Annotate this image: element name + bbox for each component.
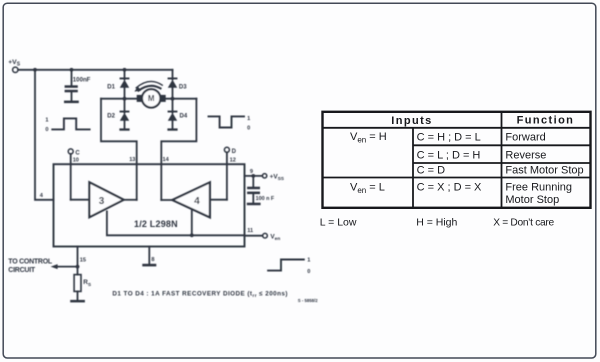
motor M (101, 89, 196, 107)
wire +Vs down to pin 4 (35, 70, 54, 200)
node junction D1-D2 motor-left (123, 97, 127, 101)
terminal D (224, 147, 236, 155)
svg-text:Ven = L: Ven = L (350, 182, 385, 196)
wire input amp4 (210, 199, 227, 201)
svg-text:13: 13 (129, 157, 135, 163)
svg-text:11: 11 (247, 228, 253, 234)
svg-text:8: 8 (151, 257, 154, 263)
svg-text:C: C (75, 151, 80, 157)
terminal Ven (263, 233, 281, 242)
svg-text:Reverse: Reverse (505, 150, 546, 162)
rotation arrows above motor (134, 81, 162, 91)
terminal +Vs (8, 59, 21, 72)
pin 15 wire (77, 247, 79, 275)
svg-text:D3: D3 (179, 84, 187, 90)
ground (under left cap) (64, 101, 79, 104)
node junction pin15 (76, 265, 80, 269)
table column divider CD/Function (501, 112, 503, 208)
svg-text:M: M (148, 94, 155, 103)
svg-text:TO CONTROL: TO CONTROL (8, 258, 53, 265)
node junction D3-D4 motor-right (171, 97, 175, 101)
IC box 1/2 L298N (54, 164, 245, 246)
svg-text:1: 1 (45, 117, 48, 123)
svg-text:100nF: 100nF (73, 77, 91, 84)
ground (under D4) (167, 128, 177, 130)
node junction rail-D1 (123, 68, 127, 72)
wire +Vs rail (18, 69, 172, 71)
pin 11 wire (245, 235, 263, 237)
svg-text:14: 14 (163, 157, 170, 163)
wire pin 12 (226, 152, 228, 199)
svg-text:15: 15 (80, 257, 86, 263)
svg-text:Ven = H: Ven = H (350, 131, 387, 145)
wire pin 10 (70, 154, 72, 200)
table truth-table frame (323, 112, 591, 208)
svg-text:100 n F: 100 n F (256, 196, 275, 202)
wire output amp4 (161, 199, 172, 201)
svg-text:Inputs: Inputs (391, 115, 432, 127)
wire output amp3 (124, 199, 137, 201)
svg-text:D4: D4 (180, 114, 188, 120)
terminal C (68, 149, 80, 157)
ground (under D2) (119, 128, 129, 130)
svg-text:X = Don’t care: X = Don’t care (493, 218, 554, 229)
svg-text:12: 12 (230, 157, 236, 163)
diode D3 (168, 70, 188, 99)
wire left output to pin 13 (101, 99, 137, 200)
svg-text:D: D (232, 149, 237, 155)
diode D2 (107, 99, 129, 129)
svg-text:D2: D2 (107, 114, 115, 120)
svg-text:4: 4 (194, 196, 200, 207)
svg-text:L = Low: L = Low (320, 217, 357, 229)
diode D4 (168, 99, 188, 129)
label TO CONTROL CIRCUIT (8, 258, 53, 274)
table header separator (323, 127, 591, 129)
svg-text:Free Running: Free Running (505, 182, 572, 194)
terminal +Vss (262, 173, 284, 182)
svg-text:0: 0 (307, 269, 310, 275)
svg-text:Motor Stop: Motor Stop (505, 194, 559, 206)
node junction rail-cap (70, 68, 74, 72)
capacitor C 100nF (left) (65, 70, 91, 101)
wire right output to pin 14 (161, 99, 196, 200)
ground (under right cap) (247, 203, 261, 206)
svg-text:Forward: Forward (505, 132, 545, 144)
table row line 3 (323, 177, 591, 179)
svg-text:C = L ; D = H: C = L ; D = H (417, 150, 481, 162)
waveform step Ven (268, 257, 310, 275)
svg-text:H = High: H = High (416, 217, 457, 229)
node junction enable (190, 233, 194, 237)
svg-text:9: 9 (250, 169, 253, 175)
table row line 1 (413, 144, 591, 146)
table column divider Ven/CD (412, 128, 414, 208)
capacitor 100 n F (right) (247, 176, 275, 203)
svg-text:C = H ; D = L: C = H ; D = L (417, 132, 481, 144)
wire input amp3 (71, 199, 90, 201)
waveform pulse D input (inverted) (209, 116, 251, 132)
svg-text:C = D: C = D (417, 165, 445, 177)
waveform pulse C input (45, 117, 89, 133)
table row line 2 (413, 162, 591, 164)
svg-text:S - 5858/2: S - 5858/2 (298, 298, 318, 303)
svg-text:1/2 L298N: 1/2 L298N (134, 219, 178, 229)
svg-text:Fast Motor Stop: Fast Motor Stop (505, 165, 583, 177)
svg-text:CIRCUIT: CIRCUIT (8, 267, 36, 274)
diode D1 (107, 70, 129, 99)
amplifier 3 (89, 182, 123, 217)
svg-text:3: 3 (99, 196, 105, 207)
svg-text:0: 0 (45, 127, 48, 133)
svg-text:Function: Function (517, 115, 575, 127)
pin 8 wire (148, 247, 150, 264)
svg-text:10: 10 (73, 157, 79, 163)
wire to control circuit with arrow (51, 264, 78, 269)
svg-text:0: 0 (247, 126, 250, 132)
wire enable line (107, 211, 245, 235)
svg-text:1: 1 (247, 116, 250, 122)
wire enable stub amp4 (191, 211, 193, 236)
svg-text:D1: D1 (107, 84, 115, 90)
ground (under Rs) (70, 300, 85, 303)
svg-text:D1 TO D4 : 1A FAST RECOVERY DI: D1 TO D4 : 1A FAST RECOVERY DIODE (trr ≤… (112, 291, 288, 298)
ground (pin 8) (142, 264, 156, 267)
amplifier 4 (172, 182, 210, 217)
node junction pin9 (251, 174, 255, 178)
svg-text:1: 1 (307, 257, 310, 263)
pin 9 wire (245, 175, 263, 177)
svg-text:C = X ; D = X: C = X ; D = X (417, 182, 482, 194)
resistor Rs (74, 275, 92, 300)
node junction rail-left (33, 68, 37, 72)
